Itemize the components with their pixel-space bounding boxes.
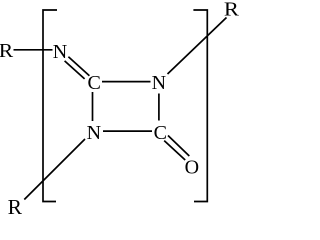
wire R to imine N <box>14 49 53 51</box>
svg-text:O: O <box>185 156 199 178</box>
double bond C=O <box>168 136 189 157</box>
double bond N=C (imine) <box>68 57 89 76</box>
svg-text:C: C <box>88 72 101 94</box>
svg-text:N: N <box>87 122 101 144</box>
svg-text:N: N <box>152 72 166 94</box>
wire N to R bottom-left <box>24 139 85 200</box>
right bracket <box>193 10 207 202</box>
svg-text:R: R <box>8 195 23 214</box>
svg-text:C: C <box>154 122 167 144</box>
ring bond C-N top <box>102 81 151 83</box>
ring bond N-C bottom <box>103 130 152 132</box>
ring bond C-N left <box>92 92 94 121</box>
svg-text:N: N <box>53 41 67 63</box>
svg-text:R: R <box>224 0 240 20</box>
wire N to R top-right <box>168 18 227 75</box>
svg-text:R: R <box>0 40 14 62</box>
left bracket <box>43 10 57 202</box>
ring bond N-C right <box>158 94 160 121</box>
